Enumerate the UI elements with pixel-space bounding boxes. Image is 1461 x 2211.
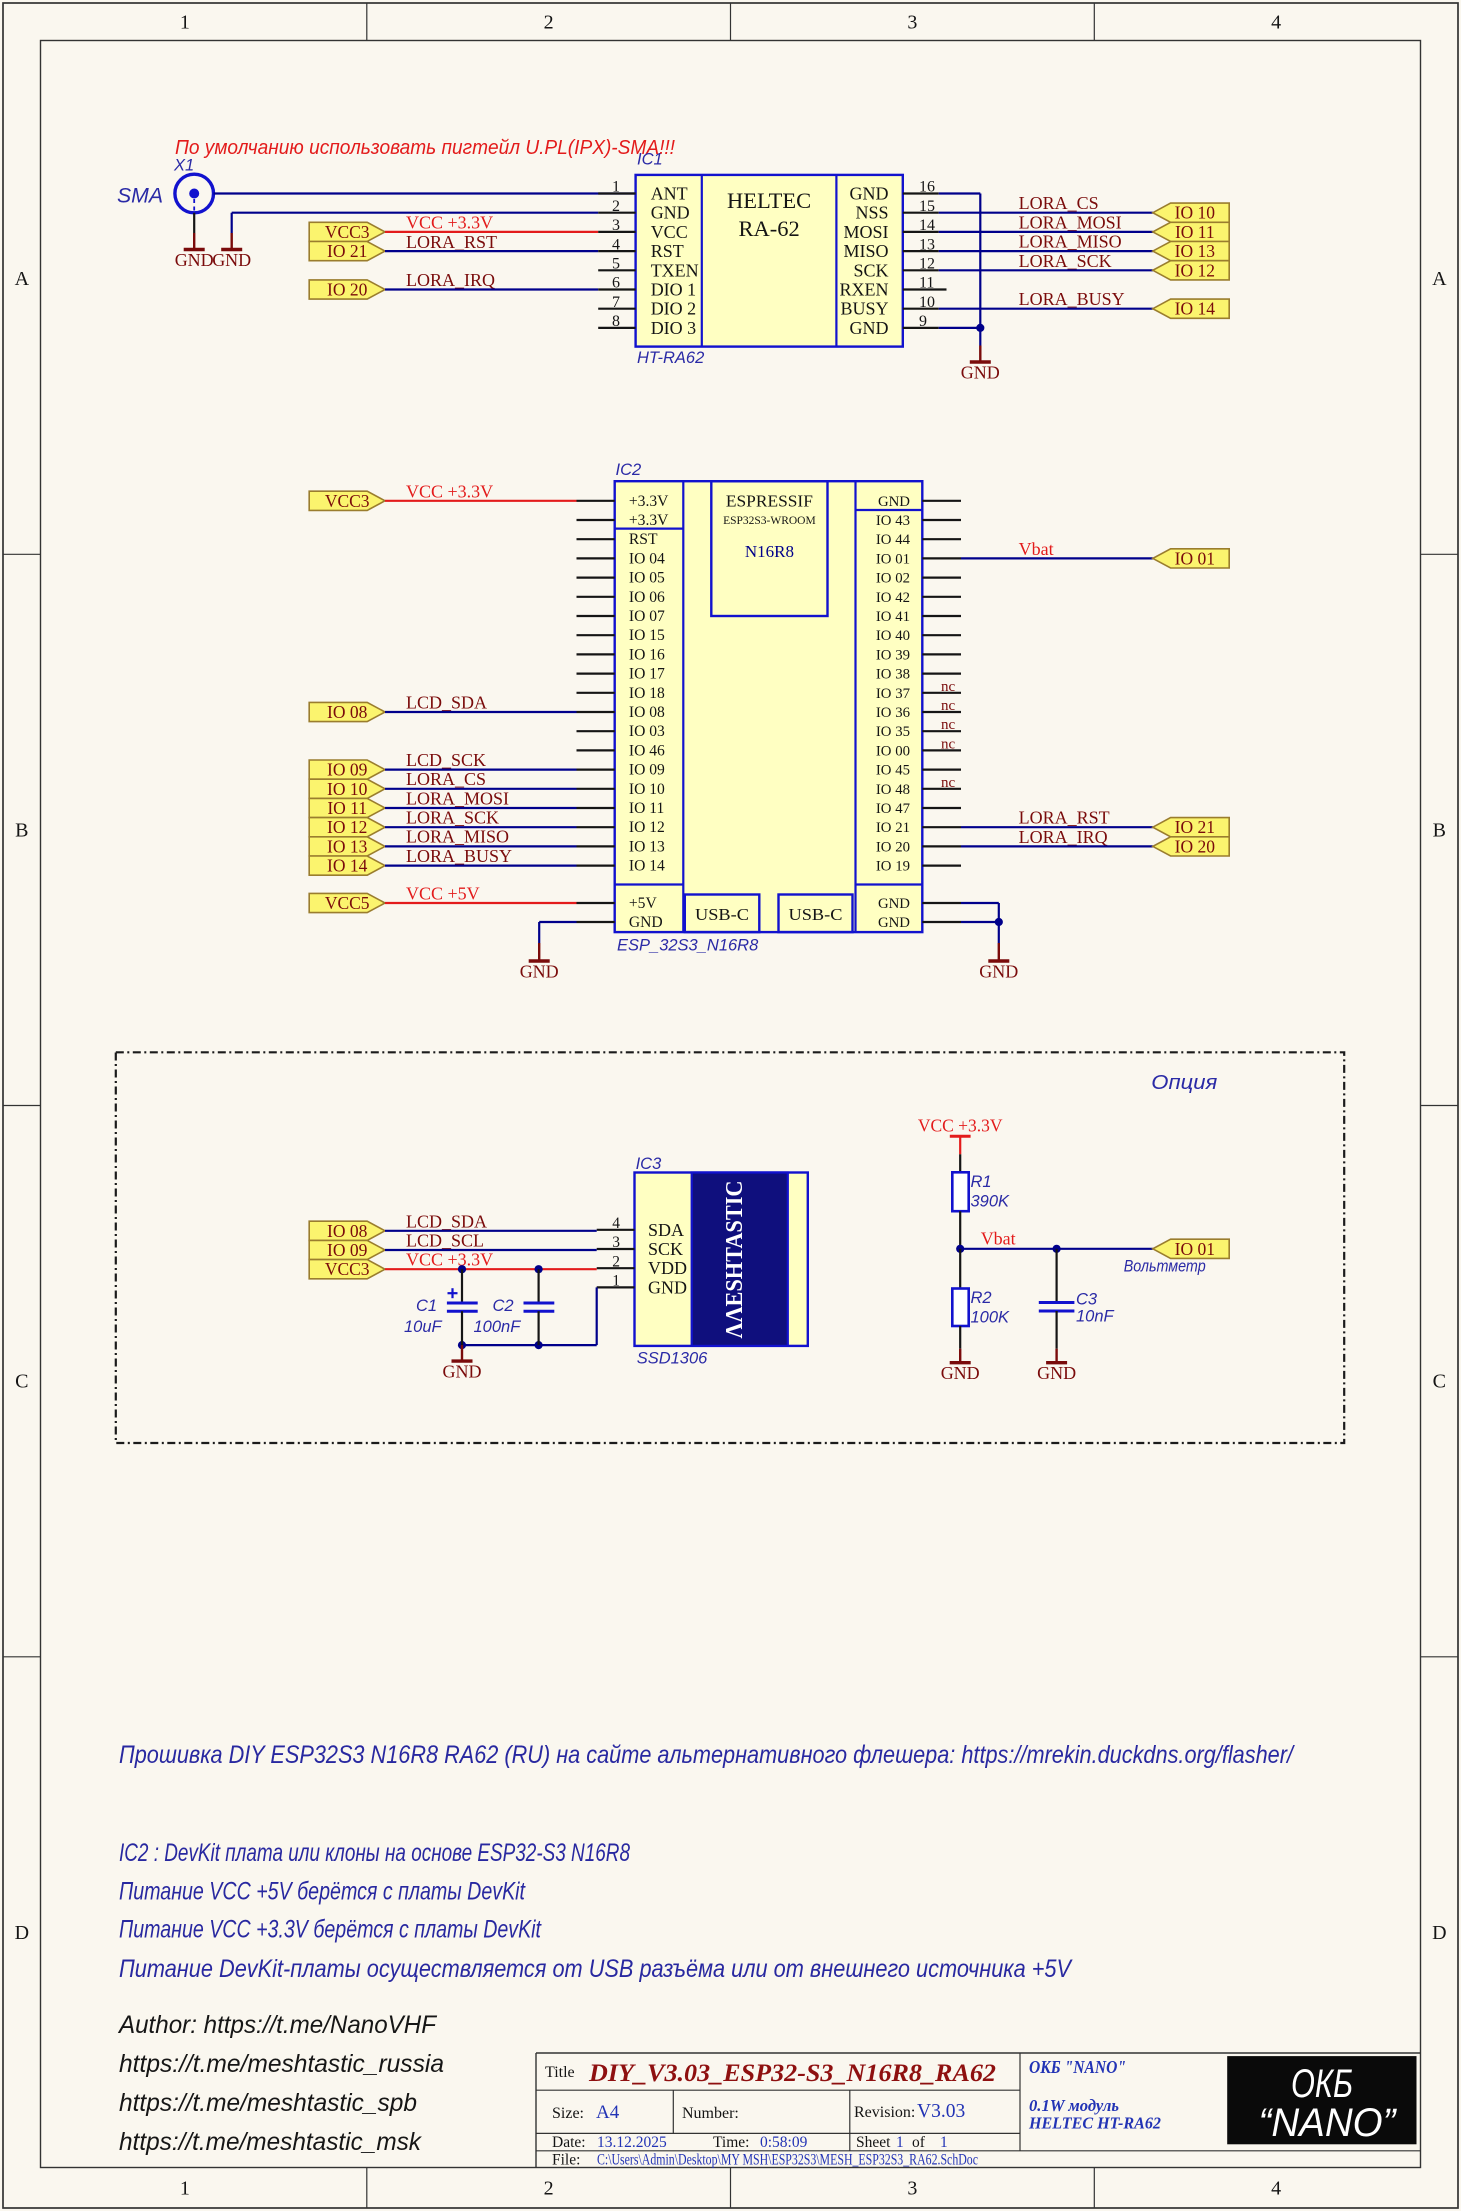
svg-text:DIO 2: DIO 2: [651, 299, 697, 319]
svg-text:11: 11: [919, 275, 934, 292]
IC3 pin 3 (SCK): [597, 1248, 635, 1250]
svg-text:IO 15: IO 15: [629, 627, 665, 644]
svg-text:nc: nc: [941, 775, 956, 791]
wire Vbat node to R2: [959, 1249, 961, 1289]
svg-text:IO 12: IO 12: [327, 817, 367, 837]
svg-text:X1: X1: [173, 157, 194, 175]
svg-text:VDD: VDD: [648, 1258, 687, 1278]
svg-text:LCD_SCK: LCD_SCK: [406, 750, 486, 770]
svg-text:LORA_SCK: LORA_SCK: [406, 808, 499, 828]
wire VCC3 to IC2 +3.3V (red): [385, 500, 577, 502]
wire IC1 pin 16 GND to junction: [939, 192, 981, 194]
IC2 pin GND (bottom right 2): [922, 921, 961, 923]
svg-text:IO 08: IO 08: [629, 704, 665, 721]
wire IO 09 to IC3 SCK: [385, 1249, 597, 1251]
IC1 pin 16 (GND): [903, 192, 939, 194]
svg-text:IO 12: IO 12: [629, 819, 665, 836]
svg-text:IO 19: IO 19: [876, 859, 910, 875]
svg-text:https://t.me/meshtastic_spb: https://t.me/meshtastic_spb: [119, 2089, 417, 2117]
IC1 pin 15 (NSS): [903, 212, 939, 214]
svg-text:Sheet: Sheet: [856, 2134, 891, 2151]
svg-text:IO 07: IO 07: [629, 608, 665, 625]
IC2 left pin IO 12: [577, 826, 615, 828]
svg-text:LORA_CS: LORA_CS: [406, 769, 486, 789]
IC2 right pin IO 21: [922, 826, 961, 828]
IC2 left pin IO 07: [577, 615, 615, 617]
svg-text:1: 1: [896, 2134, 904, 2151]
svg-text:Title: Title: [545, 2064, 575, 2081]
IC2 right pin IO 35: [922, 730, 961, 732]
port IO 10 (LORA_CS): [309, 779, 385, 799]
IC2 left pin IO 17: [577, 672, 615, 674]
svg-text:nc: nc: [941, 698, 956, 714]
wire IC1 pin 9 GND to junction: [939, 327, 981, 329]
port IO 21 (LORA_RST): [309, 241, 385, 261]
svg-text:VCC3: VCC3: [325, 491, 370, 511]
svg-text:Питание DevKit-платы осуществл: Питание DevKit-платы осуществляется от U…: [119, 1955, 1073, 1983]
svg-text:GND: GND: [850, 184, 889, 204]
IC2 left pin IO 14: [577, 864, 615, 866]
svg-text:GND: GND: [443, 1362, 482, 1382]
IC2 left pin +3.3V: [577, 500, 615, 502]
port IO 13 (MISO): [1153, 241, 1229, 261]
port IO 01 (Vbat): [1153, 548, 1229, 568]
svg-text:LORA_RST: LORA_RST: [406, 232, 497, 252]
svg-text:IO 13: IO 13: [629, 838, 665, 855]
svg-text:VCC: VCC: [651, 222, 688, 242]
resistor R1 390K: [952, 1172, 968, 1211]
svg-text:GND: GND: [175, 250, 214, 270]
IC2 left pin IO 13: [577, 845, 615, 847]
svg-text:IO 00: IO 00: [876, 743, 910, 759]
svg-text:IC2 : DevKit плата или клоны н: IC2 : DevKit плата или клоны на основе E…: [119, 1839, 630, 1867]
connector X1 (SMA): [117, 157, 214, 213]
IC2 right pin IO 38: [922, 672, 961, 674]
svg-text:GND: GND: [961, 363, 1000, 383]
svg-text:2: 2: [544, 12, 554, 34]
svg-text:HELTEC: HELTEC: [727, 188, 811, 213]
svg-text:1: 1: [940, 2134, 948, 2151]
svg-text:of: of: [912, 2134, 926, 2151]
svg-text:HELTEC HT-RA62: HELTEC HT-RA62: [1028, 2114, 1161, 2133]
IC2 right pin IO 40: [922, 634, 961, 636]
ground symbol GND below IC1: [961, 346, 1000, 383]
svg-text:LCD_SCL: LCD_SCL: [406, 1231, 484, 1251]
svg-text:1: 1: [612, 1273, 620, 1290]
svg-text:https://t.me/meshtastic_russia: https://t.me/meshtastic_russia: [119, 2050, 444, 2078]
logo ОКБ NANO: [1227, 2056, 1416, 2145]
wire IO 09 to IC2: [385, 768, 577, 770]
capacitor C2 100nF: [524, 1269, 555, 1345]
svg-text:IO 46: IO 46: [629, 742, 665, 759]
capacitor C3 10nF: [1039, 1249, 1075, 1349]
svg-text:SSD1306: SSD1306: [637, 1350, 708, 1368]
svg-text:ESPRESSIF: ESPRESSIF: [726, 492, 813, 511]
svg-text:LORA_RST: LORA_RST: [1019, 808, 1110, 828]
IC1 pin 4 (RST): [598, 250, 635, 252]
wire R2 to ground: [959, 1326, 961, 1349]
svg-text:LORA_CS: LORA_CS: [1019, 193, 1099, 213]
svg-text:B: B: [15, 819, 28, 841]
IC1 pin 10 (BUSY): [903, 308, 939, 310]
svg-text:13: 13: [919, 236, 935, 253]
port IO 08 (LCD_SDA): [309, 702, 385, 722]
svg-text:IO 20: IO 20: [327, 280, 368, 300]
svg-text:14: 14: [919, 217, 935, 234]
port IO 14 (LORA_BUSY): [309, 856, 385, 876]
wire IO 08 to IC2 IO 08: [385, 711, 577, 713]
svg-text:LCD_SDA: LCD_SDA: [406, 693, 487, 713]
IC2 left pin RST: [577, 538, 615, 540]
svg-text:VCC3: VCC3: [325, 1259, 370, 1279]
IC2 right pin IO 43: [922, 519, 961, 521]
svg-text:IO 14: IO 14: [1175, 299, 1216, 319]
svg-text:IO 14: IO 14: [327, 856, 368, 876]
IC2 left pin +3.3V: [577, 519, 615, 521]
svg-text:IO 43: IO 43: [876, 513, 910, 529]
svg-text:Вольтметр: Вольтметр: [1124, 1258, 1206, 1276]
svg-text:ΛΛESHTASTIC: ΛΛESHTASTIC: [722, 1181, 748, 1339]
IC1 pin 6 (DIO 1): [598, 288, 635, 290]
svg-text:IO 01: IO 01: [1175, 1239, 1215, 1259]
svg-text:GND: GND: [212, 250, 251, 270]
svg-text:10uF: 10uF: [404, 1318, 443, 1336]
svg-text:IO 11: IO 11: [629, 800, 664, 817]
IC2 pin +5V: [577, 902, 615, 904]
svg-text:B: B: [1433, 819, 1446, 841]
svg-text:100K: 100K: [971, 1309, 1011, 1327]
svg-text:“NANO”: “NANO”: [1259, 2101, 1398, 2145]
junction at C1 bottom: [458, 1341, 466, 1349]
IC2 left pin IO 03: [577, 730, 615, 732]
svg-text:IO 11: IO 11: [327, 798, 367, 818]
IC2 left pin IO 16: [577, 653, 615, 655]
port IO 11 (MOSI): [1153, 222, 1229, 242]
wire IO 08 to IC3 SDA: [385, 1230, 597, 1232]
svg-text:R2: R2: [971, 1289, 992, 1307]
svg-text:ESP_32S3_N16R8: ESP_32S3_N16R8: [617, 937, 759, 955]
wire IO 14 to IC2: [385, 864, 577, 866]
IC2 right pin IO 44: [922, 538, 961, 540]
ground symbol GND below C3: [1037, 1349, 1076, 1384]
IC3 SSD1306 OLED body: [635, 1173, 808, 1346]
svg-text:3: 3: [612, 1234, 620, 1251]
port IO 09 (IC3 SCK): [309, 1240, 385, 1260]
svg-text:GND: GND: [1037, 1363, 1076, 1383]
svg-text:2: 2: [612, 198, 620, 215]
svg-text:C: C: [15, 1371, 28, 1393]
svg-text:LORA_MISO: LORA_MISO: [1019, 232, 1122, 252]
svg-text:ОКБ: ОКБ: [1291, 2062, 1353, 2106]
svg-text:RXEN: RXEN: [840, 280, 889, 300]
IC2 right pin IO 00: [922, 749, 961, 751]
capacitor C1 10uF (polarized): [447, 1269, 478, 1345]
svg-text:Date:: Date:: [552, 2134, 586, 2151]
IC3 pin 2 (VDD): [597, 1267, 635, 1269]
svg-text:MOSI: MOSI: [843, 222, 888, 242]
IC2 left pin IO 10: [577, 788, 615, 790]
svg-text:390K: 390K: [971, 1193, 1011, 1211]
svg-text:12: 12: [919, 256, 935, 273]
wire IC2 bottom-right GND pins to ground: [961, 902, 999, 904]
svg-text:C1: C1: [416, 1297, 437, 1315]
svg-text:USB-C: USB-C: [695, 905, 749, 924]
option area dashed boundary: [116, 1052, 1344, 1443]
svg-text:IO 17: IO 17: [629, 666, 665, 683]
svg-text:Time:: Time:: [713, 2134, 749, 2151]
svg-text:IO 02: IO 02: [876, 571, 910, 587]
svg-text:LORA_MOSI: LORA_MOSI: [406, 788, 509, 808]
power symbol VCC +3.3V (divider): [918, 1116, 1003, 1155]
IC2 ESP32-S3 DevKit body: [615, 481, 923, 932]
svg-text:IO 13: IO 13: [327, 836, 368, 856]
svg-text:DIO 1: DIO 1: [651, 280, 697, 300]
IC2 right pin IO 48: [922, 788, 961, 790]
svg-text:Revision:: Revision:: [854, 2104, 915, 2121]
IC1 HELTEC RA-62 module body: [636, 175, 903, 347]
wire IC2 IO 01 to port IO 01: [961, 557, 1153, 559]
svg-text:C:\Users\Admin\Desktop\MY MSH\: C:\Users\Admin\Desktop\MY MSH\ESP32S3\ME…: [597, 2152, 978, 2169]
wire IO 12 to IC2: [385, 826, 577, 828]
wire VCC5 to IC2 +5V (red): [385, 902, 577, 904]
IC2 right pin IO 41: [922, 615, 961, 617]
svg-text:GND: GND: [878, 896, 910, 912]
svg-text:IO 20: IO 20: [876, 839, 910, 855]
IC3 pin 1 (GND): [597, 1286, 635, 1288]
IC1 pin 2 (GND): [598, 212, 635, 214]
svg-text:10: 10: [919, 294, 935, 311]
svg-text:IO 04: IO 04: [629, 550, 665, 567]
svg-text:Vbat: Vbat: [981, 1229, 1016, 1249]
svg-text:IO 05: IO 05: [629, 570, 665, 587]
junction at C2 top: [535, 1265, 543, 1273]
IC2 left pin IO 04: [577, 557, 615, 559]
port VCC3 (to IC1 VCC): [309, 222, 385, 242]
ground symbol GND below C1: [443, 1345, 482, 1382]
junction at C2 bottom: [535, 1341, 543, 1349]
svg-text:1: 1: [612, 179, 620, 196]
svg-text:5: 5: [612, 256, 620, 273]
svg-text:По умолчанию использовать пигт: По умолчанию использовать пигтейл U.PL(I…: [175, 136, 675, 159]
port VCC5 (IC2 +5V): [309, 893, 385, 913]
svg-text:IO 03: IO 03: [629, 723, 665, 740]
svg-text:SCK: SCK: [853, 260, 888, 280]
svg-text:IO 01: IO 01: [876, 551, 910, 567]
ground symbol GND below IC2 left: [520, 943, 559, 982]
wire IC3 GND pin down to cap rail: [596, 1287, 598, 1345]
svg-text:3: 3: [907, 12, 917, 34]
port IO 14 (BUSY): [1153, 299, 1229, 319]
svg-text:N16R8: N16R8: [745, 542, 794, 561]
svg-text:SMA: SMA: [117, 185, 163, 208]
port VCC3 (IC2 +3.3V): [309, 491, 385, 511]
svg-text:RA-62: RA-62: [738, 216, 799, 241]
svg-text:RST: RST: [651, 241, 684, 261]
IC1 pin 3 (VCC): [598, 231, 635, 233]
IC2 ESPRESSIF ESP32S3-WROOM sub-module: [711, 481, 827, 616]
svg-text:GND: GND: [648, 1277, 687, 1297]
svg-text:IO 38: IO 38: [876, 667, 910, 683]
svg-text:IO 40: IO 40: [876, 628, 910, 644]
svg-text:R1: R1: [971, 1173, 992, 1191]
svg-text:VCC +3.3V: VCC +3.3V: [406, 482, 493, 502]
IC1 pin 13 (MISO): [903, 250, 939, 252]
svg-text:IC2: IC2: [616, 461, 642, 479]
wire IC1 pin 13 MISO to port IO 13: [939, 250, 1153, 252]
junction at IC1 GND net: [976, 324, 984, 332]
IC1 pin 9 (GND): [903, 327, 939, 329]
IC2 left pin IO 15: [577, 634, 615, 636]
wire X1 shield down to ground: [193, 213, 195, 233]
svg-text:IO 37: IO 37: [876, 686, 910, 702]
svg-text:10nF: 10nF: [1076, 1308, 1115, 1326]
svg-text:Прошивка DIY ESP32S3 N16R8 RA6: Прошивка DIY ESP32S3 N16R8 RA62 (RU) на …: [119, 1741, 1296, 1769]
svg-text:https://t.me/meshtastic_msk: https://t.me/meshtastic_msk: [119, 2128, 422, 2156]
svg-text:LORA_BUSY: LORA_BUSY: [1019, 289, 1125, 309]
port IO 20 (LORA_IRQ): [309, 280, 385, 300]
svg-text:IO 01: IO 01: [1175, 548, 1215, 568]
port IO 09 (LCD_SCK): [309, 760, 385, 780]
IC2 right pin IO 37: [922, 692, 961, 694]
svg-text:LORA_IRQ: LORA_IRQ: [406, 270, 495, 290]
svg-text:9: 9: [919, 313, 927, 330]
IC1 pin 5 (TXEN): [598, 269, 635, 271]
svg-text:LORA_IRQ: LORA_IRQ: [1019, 827, 1108, 847]
svg-text:4: 4: [612, 236, 620, 253]
wire IC2 IO 21 to port IO 21: [961, 826, 1153, 828]
svg-text:LORA_MISO: LORA_MISO: [406, 827, 509, 847]
svg-text:A: A: [1432, 268, 1447, 290]
IC2 left pin IO 08: [577, 711, 615, 713]
svg-text:VCC +3.3V: VCC +3.3V: [406, 213, 493, 233]
resistor R2 100K: [952, 1289, 968, 1327]
svg-text:8: 8: [612, 313, 620, 330]
svg-text:GND: GND: [520, 962, 559, 982]
ground symbol GND below IC2 right: [979, 943, 1018, 982]
IC2 left pin IO 06: [577, 596, 615, 598]
svg-text:GND: GND: [941, 1363, 980, 1383]
svg-text:USB-C: USB-C: [789, 905, 843, 924]
svg-text:nc: nc: [941, 679, 956, 695]
svg-text:IO 21: IO 21: [327, 241, 367, 261]
junction at C3 top: [1053, 1245, 1061, 1253]
svg-text:100nF: 100nF: [474, 1318, 522, 1336]
wire IC1 pin 12 SCK to port IO 12: [939, 269, 1153, 271]
svg-text:4: 4: [1271, 12, 1281, 34]
svg-text:IO 20: IO 20: [1175, 836, 1216, 856]
svg-text:1: 1: [180, 12, 190, 34]
svg-text:V3.03: V3.03: [917, 2101, 965, 2122]
wire VCC3 to IC3 VDD (red): [385, 1268, 597, 1270]
svg-text:IO 36: IO 36: [876, 705, 910, 721]
svg-text:ESP32S3-WROOM: ESP32S3-WROOM: [723, 515, 816, 527]
svg-text:GND: GND: [651, 203, 690, 223]
svg-text:IO 18: IO 18: [629, 685, 665, 702]
IC2 right pin IO 39: [922, 653, 961, 655]
svg-text:Size:: Size:: [552, 2105, 584, 2122]
svg-text:IO 08: IO 08: [327, 702, 368, 722]
wire IC2 IO 20 to port IO 20: [961, 845, 1153, 847]
svg-text:IO 48: IO 48: [876, 782, 910, 798]
svg-text:DIY_V3.03_ESP32-S3_N16R8_RA62: DIY_V3.03_ESP32-S3_N16R8_RA62: [588, 2058, 996, 2087]
IC2 right pin IO 45: [922, 768, 961, 770]
svg-text:2: 2: [612, 1253, 620, 1270]
wire IC1 pin 14 MOSI to port IO 11: [939, 231, 1153, 233]
IC2 pin GND (bottom left): [577, 921, 615, 923]
svg-text:ОКБ "NANO": ОКБ "NANO": [1029, 2057, 1126, 2077]
wire X1 to IC1 pin 1 ANT: [214, 192, 636, 194]
svg-text:IO 21: IO 21: [876, 820, 910, 836]
IC2 right pin IO 20: [922, 845, 961, 847]
svg-text:Number:: Number:: [682, 2105, 739, 2122]
wire Vbat node to port IO 01: [960, 1248, 1153, 1250]
port IO 13 (LORA_MISO): [309, 836, 385, 856]
svg-text:File:: File:: [552, 2152, 580, 2169]
svg-text:LORA_MOSI: LORA_MOSI: [1019, 212, 1122, 232]
svg-text:2: 2: [544, 2178, 554, 2200]
wire IO 13 to IC2: [385, 845, 577, 847]
IC2 left pin IO 09: [577, 768, 615, 770]
svg-text:IO 12: IO 12: [1175, 260, 1215, 280]
IC2 right pin IO 02: [922, 576, 961, 578]
svg-text:1: 1: [180, 2178, 190, 2200]
svg-text:GND: GND: [979, 962, 1018, 982]
svg-text:IO 42: IO 42: [876, 590, 910, 606]
IC2 USB-C connector box 1: [685, 895, 760, 933]
port IO 11 (LORA_MOSI): [309, 798, 385, 818]
IC2 pin GND (bottom right 1): [922, 902, 961, 904]
port IO 01 (voltmeter): [1153, 1239, 1229, 1259]
port IO 10 (NSS): [1153, 203, 1229, 223]
svg-text:4: 4: [1271, 2178, 1281, 2200]
svg-text:Питание VCC +5V берётся с плат: Питание VCC +5V берётся с платы DevKit: [119, 1878, 526, 1906]
svg-text:IC3: IC3: [636, 1155, 663, 1173]
svg-text:D: D: [1432, 1922, 1446, 1944]
svg-text:IO 45: IO 45: [876, 763, 910, 779]
svg-text:IC1: IC1: [637, 151, 663, 169]
IC2 left pin IO 11: [577, 807, 615, 809]
junction at Vbat node: [956, 1245, 964, 1253]
IC2 left pin IO 46: [577, 749, 615, 751]
svg-text:C2: C2: [493, 1297, 514, 1315]
svg-text:VCC5: VCC5: [325, 893, 370, 913]
svg-text:Vbat: Vbat: [1019, 539, 1054, 559]
IC2 right pin IO 01: [922, 557, 961, 559]
IC2 right pin IO 36: [922, 711, 961, 713]
wire R1 to Vbat node: [959, 1211, 961, 1249]
wire IO 10 to IC2: [385, 788, 577, 790]
wire IO 20 to IC1 pin 6: [385, 288, 598, 290]
svg-text:nc: nc: [941, 717, 956, 733]
svg-text:+3.3V: +3.3V: [629, 493, 669, 510]
ground symbol GND at X1: [175, 233, 214, 270]
ground symbol GND below R2: [941, 1349, 980, 1384]
port IO 12 (LORA_SCK): [309, 817, 385, 837]
svg-text:IO 11: IO 11: [1175, 222, 1215, 242]
wire IC1 pin 2 GND to ground: [232, 212, 599, 214]
IC2 USB-C connector box 2: [779, 895, 853, 933]
svg-text:BUSY: BUSY: [840, 299, 888, 319]
svg-text:RST: RST: [629, 531, 658, 548]
svg-text:VCC +3.3V: VCC +3.3V: [918, 1116, 1003, 1136]
svg-text:NSS: NSS: [855, 203, 888, 223]
svg-text:IO 47: IO 47: [876, 801, 910, 817]
svg-text:D: D: [15, 1922, 29, 1944]
svg-text:IO 16: IO 16: [629, 646, 665, 663]
svg-text:3: 3: [612, 217, 620, 234]
svg-text:C3: C3: [1076, 1291, 1098, 1309]
svg-text:nc: nc: [941, 736, 956, 752]
